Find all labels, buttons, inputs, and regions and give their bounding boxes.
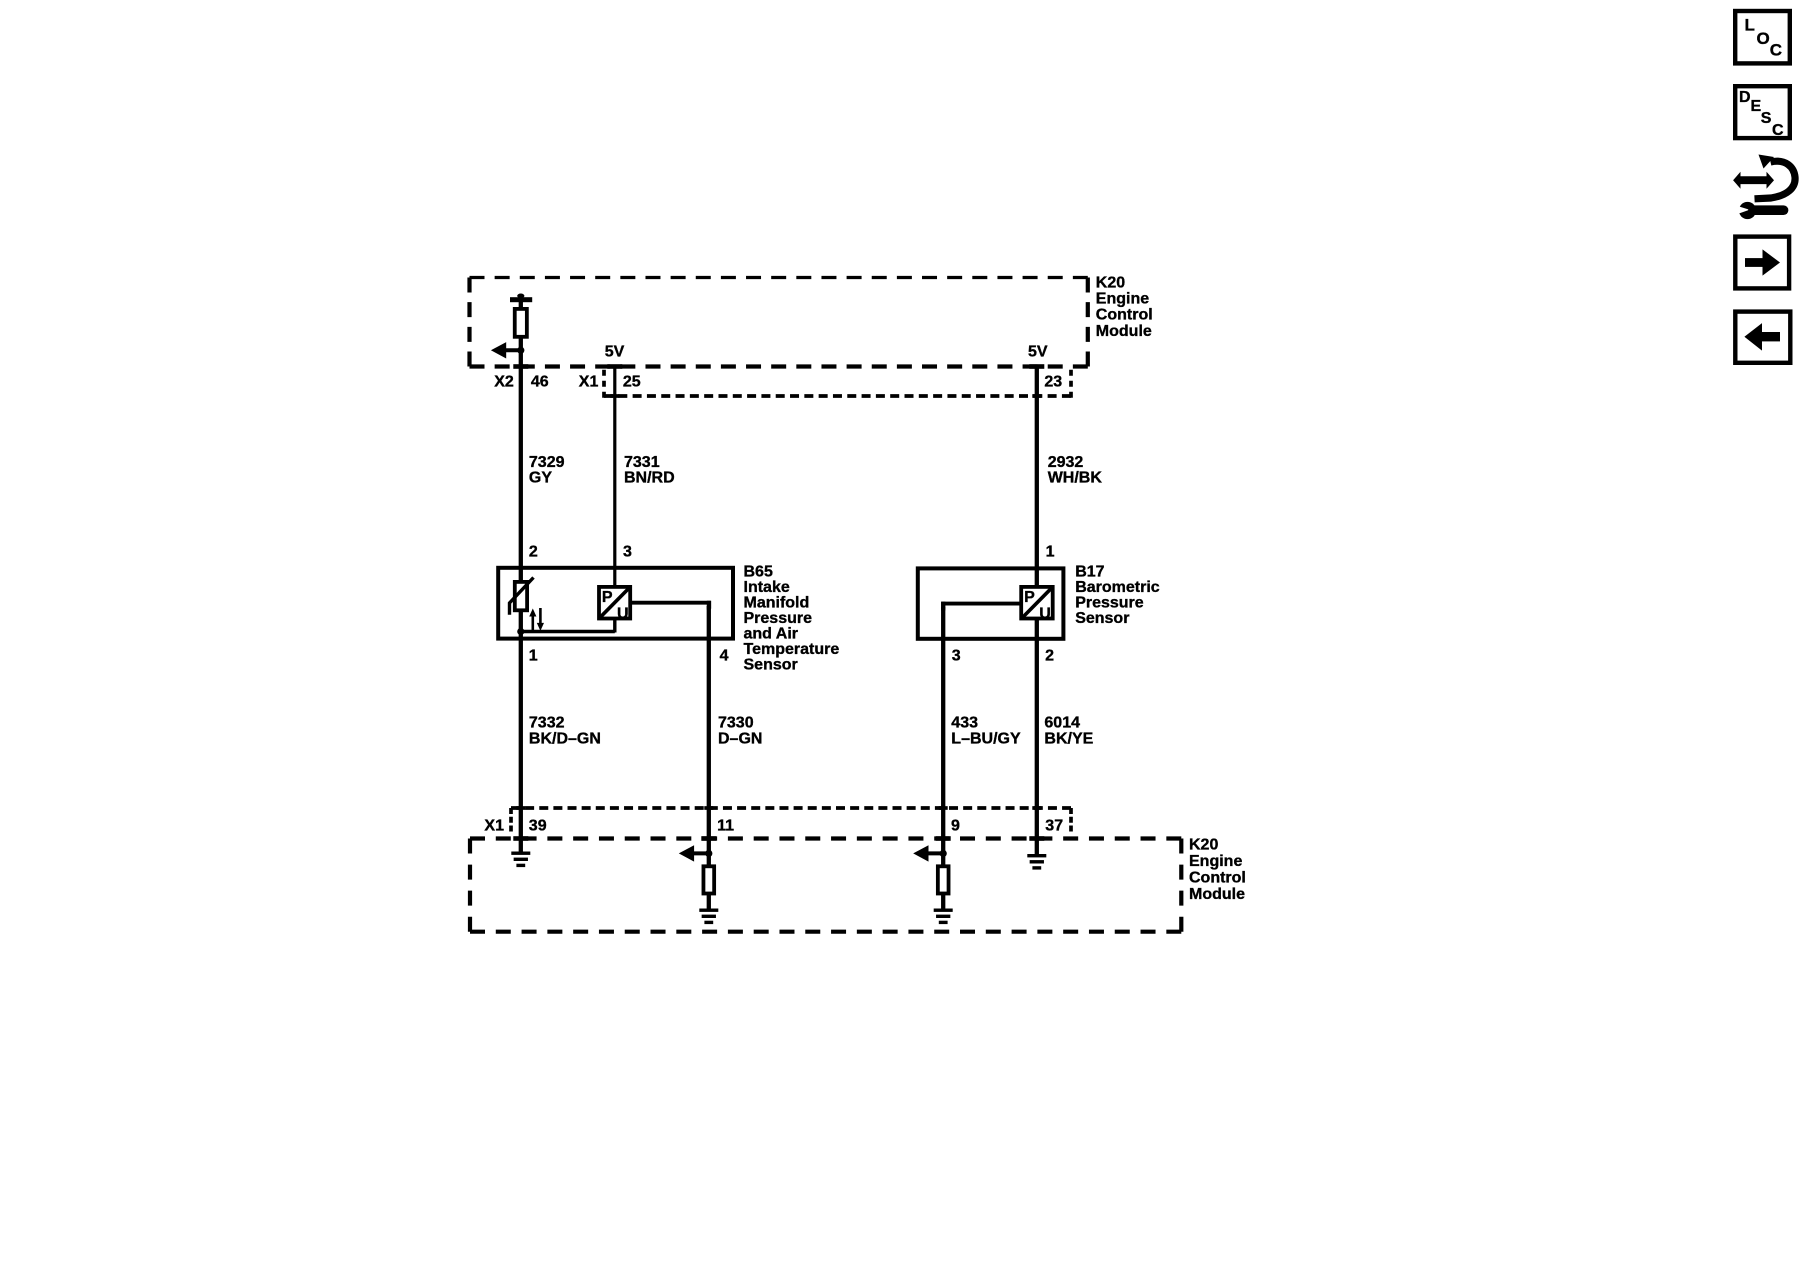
svg-text:U: U	[1039, 606, 1051, 623]
wire 7330 D-GN: B65 pin 4 down to bottom ECM arrow junction	[707, 606, 711, 853]
label K20 Engine Control Module (bottom)	[1189, 837, 1246, 904]
svg-text:S: S	[1761, 110, 1772, 127]
svg-text:7329: 7329	[529, 454, 565, 471]
terminal node dot above resistor	[517, 294, 524, 299]
terminal dash X2-46 on top box edge	[513, 364, 528, 369]
svg-text:X2: X2	[494, 374, 514, 391]
svg-text:Module: Module	[1096, 323, 1152, 340]
svg-text:7331: 7331	[624, 454, 660, 471]
svg-text:6014: 6014	[1044, 714, 1080, 731]
svg-text:1: 1	[1046, 544, 1055, 561]
wire: B65 P/U output to pin 4	[630, 603, 709, 610]
svg-text:1: 1	[529, 648, 538, 665]
terminal dash pin 11 on bottom box edge	[701, 836, 716, 841]
svg-text:K20: K20	[1096, 274, 1125, 291]
svg-text:46: 46	[531, 374, 549, 391]
svg-text:Engine: Engine	[1189, 853, 1242, 870]
wire: bottom ECM pin 11 junction to resistor and ground	[707, 853, 711, 866]
label wire 6014 BK/YE	[1044, 714, 1093, 747]
wire 6014 BK/YE: B17 pin 2 down to ground in bottom ECM	[1035, 619, 1039, 854]
wire: resistor top stub to thermistor (through junctions)	[519, 302, 523, 310]
svg-text:Manifold: Manifold	[744, 594, 810, 611]
svg-text:BN/RD: BN/RD	[624, 469, 675, 486]
svg-text:Temperature: Temperature	[744, 641, 840, 658]
svg-text:5V: 5V	[605, 343, 625, 360]
terminal dash pin 37 on bottom box edge	[1029, 836, 1044, 841]
svg-text:X1: X1	[579, 374, 599, 391]
icon next (right arrow) button	[1735, 237, 1789, 289]
svg-text:D–GN: D–GN	[718, 730, 762, 747]
svg-text:Intake: Intake	[744, 579, 790, 596]
svg-text:433: 433	[951, 714, 978, 731]
connector pin dash 11	[704, 806, 713, 810]
wire 7332 BK/D-GN: B65 pin 1 down to ground in bottom ECM	[519, 632, 523, 852]
svg-text:9: 9	[951, 817, 960, 834]
wire 433 L-BU/GY: B17 pin 3 down to bottom ECM arrow junction	[941, 607, 945, 853]
pressure transducer P/U cell in B65	[599, 587, 630, 623]
icon back (left arrow) button	[1735, 312, 1790, 363]
junction node B65 pin1/thermistor	[517, 628, 524, 635]
svg-text:Pressure: Pressure	[1075, 594, 1144, 611]
svg-text:WH/BK: WH/BK	[1048, 469, 1103, 486]
svg-text:GY: GY	[529, 469, 552, 486]
svg-text:7332: 7332	[529, 714, 565, 731]
terminal dash 23 on top box edge	[1029, 364, 1044, 369]
svg-text:X1: X1	[484, 817, 504, 834]
icon DESC button	[1735, 86, 1790, 139]
label B65 Intake Manifold Pressure and Air Temperature Sensor	[744, 563, 840, 673]
svg-text:5V: 5V	[1028, 343, 1048, 360]
svg-text:Sensor: Sensor	[744, 656, 798, 673]
wire 7329 GY: resistor bottom down to B65 pin 2 / thermistor	[519, 338, 523, 632]
arrow (signal out) top ECM	[491, 342, 521, 358]
resistor (internal, pin 9)	[938, 866, 949, 893]
wire: B17 P/U output to pin 3	[943, 604, 1021, 611]
svg-text:7330: 7330	[718, 714, 754, 731]
svg-text:Barometric: Barometric	[1075, 579, 1160, 596]
connector X1 strip (top, dotted)	[604, 370, 1071, 398]
svg-text:D: D	[1739, 89, 1751, 106]
svg-text:4: 4	[720, 648, 729, 665]
svg-text:O: O	[1757, 29, 1770, 48]
thermistor (air temperature) in B65	[510, 578, 534, 615]
connector pin dash 23	[1032, 394, 1041, 398]
svg-text:Control: Control	[1189, 870, 1246, 887]
svg-text:23: 23	[1044, 374, 1062, 391]
icon LOC button	[1735, 11, 1790, 63]
connector pin dash 9	[939, 806, 948, 810]
svg-text:2: 2	[529, 544, 538, 561]
svg-text:BK/D–GN: BK/D–GN	[529, 730, 601, 747]
svg-text:K20: K20	[1189, 837, 1218, 854]
label wire 433 L-BU/GY	[951, 714, 1021, 747]
svg-text:B65: B65	[744, 563, 773, 580]
junction node on wire 46	[517, 347, 524, 354]
arrow (signal in) pin 9	[913, 845, 943, 861]
junction node pin 9	[940, 850, 947, 857]
svg-text:25: 25	[623, 374, 641, 391]
svg-text:Sensor: Sensor	[1075, 610, 1129, 627]
icon diagnostic tool (arrows and wrench)	[1733, 155, 1795, 220]
wire: bottom ECM pin 9 junction to resistor and ground	[941, 853, 945, 866]
connector pin dash 37	[1032, 806, 1041, 810]
module K20 Engine Control Module (bottom) dashed box	[470, 839, 1181, 932]
label wire 7331 BN/RD	[624, 454, 675, 487]
ground (pin 37)	[1027, 854, 1046, 870]
connector pin dash 39	[516, 806, 525, 810]
svg-text:Module: Module	[1189, 886, 1245, 903]
module K20 Engine Control Module (top) dashed box	[470, 278, 1088, 367]
ground (pin 39)	[511, 852, 530, 868]
svg-text:B17: B17	[1075, 563, 1104, 580]
pressure transducer P/U cell in B17	[1021, 587, 1052, 623]
svg-text:2932: 2932	[1048, 454, 1084, 471]
svg-text:L: L	[1745, 16, 1755, 35]
sensor B17 box outline	[918, 568, 1064, 638]
label wire 7330 D-GN	[718, 714, 762, 747]
resistor (internal, top ECM)	[515, 309, 527, 337]
terminal dash X1-25 on top box edge	[607, 364, 622, 369]
wire 2932 WH/BK: 5V pin 23 down to B17 pin 1	[1035, 366, 1039, 586]
svg-text:3: 3	[952, 648, 961, 665]
svg-text:U: U	[617, 606, 629, 623]
connector X1 strip (bottom, dotted)	[511, 808, 1071, 832]
small down arrow (thermistor)	[537, 608, 544, 631]
svg-text:P: P	[1024, 589, 1035, 606]
terminal dash pin 39 on bottom box edge	[513, 836, 528, 841]
wire 7331 BN/RD: 5V pin 25 down to B65 pin 3	[613, 366, 616, 586]
svg-text:39: 39	[529, 817, 547, 834]
ground (pin 9 resistor)	[934, 909, 953, 925]
svg-text:2: 2	[1045, 648, 1054, 665]
svg-text:3: 3	[623, 544, 632, 561]
label K20 Engine Control Module (top)	[1096, 274, 1153, 340]
small up arrow (thermistor)	[529, 609, 536, 632]
arrow (signal in) pin 11	[679, 845, 709, 861]
svg-text:Pressure: Pressure	[744, 610, 813, 627]
svg-text:37: 37	[1045, 817, 1063, 834]
connector pin dash 25	[610, 394, 619, 398]
label wire 7332 BK/D-GN	[529, 714, 601, 747]
svg-text:Control: Control	[1096, 307, 1153, 324]
ground (pin 11 resistor)	[699, 909, 718, 925]
svg-text:L–BU/GY: L–BU/GY	[951, 730, 1021, 747]
terminal T-bar above resistor	[510, 297, 532, 302]
wire: B65 internal jumper from thermistor junction to P/U cell	[521, 630, 615, 633]
terminal dash pin 9 on bottom box edge	[936, 836, 951, 841]
label wire 7329 GY	[529, 454, 565, 487]
label wire 2932 WH/BK	[1048, 454, 1103, 487]
junction node pin 11	[705, 850, 712, 857]
svg-text:C: C	[1772, 122, 1784, 139]
svg-text:BK/YE: BK/YE	[1044, 730, 1093, 747]
svg-text:and Air: and Air	[744, 625, 799, 642]
sensor B65 box outline	[498, 568, 733, 639]
svg-text:P: P	[602, 589, 613, 606]
svg-text:Engine: Engine	[1096, 290, 1149, 307]
label B17 Barometric Pressure Sensor	[1075, 563, 1160, 627]
svg-text:C: C	[1770, 41, 1782, 60]
resistor (internal, pin 11)	[703, 866, 714, 893]
svg-text:11: 11	[717, 817, 734, 834]
